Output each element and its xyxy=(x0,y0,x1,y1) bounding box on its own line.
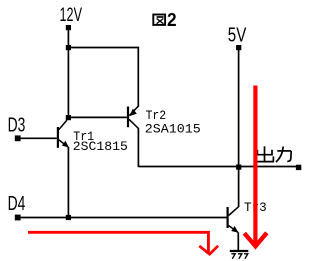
ground bar xyxy=(230,250,249,252)
transistor Q2 Tr2 base bar xyxy=(127,107,129,128)
node Tr1 collector / Tr2 base junction xyxy=(66,115,71,120)
wire Tr1 emitter down to D4 line xyxy=(67,147,69,216)
transistor Q3 Tr3 base bar xyxy=(227,207,229,228)
node D4 / Tr1 emitter junction xyxy=(66,215,71,220)
svg-text:D3: D3 xyxy=(8,114,26,136)
node 5V terminal xyxy=(236,45,241,50)
transistor Q2 Tr2 emitter arrow (PNP, points to base bar) xyxy=(129,109,137,117)
svg-text:12V: 12V xyxy=(60,5,83,26)
svg-text:2SA1015: 2SA1015 xyxy=(145,122,201,137)
transistor Q3 Tr3 emitter arrow (NPN, points outward) xyxy=(231,226,238,233)
ground hatch 7 (second) xyxy=(238,254,242,259)
label 出力 (output) xyxy=(255,146,291,162)
svg-text:5V: 5V xyxy=(228,24,247,46)
transistor Q3 Tr3 collector lead xyxy=(229,207,239,216)
wire D3 to Tr1 base xyxy=(20,137,57,139)
transistor Q1 Tr1 emitter arrow (NPN, points outward) xyxy=(62,141,69,148)
node branch to Tr2 emitter xyxy=(66,45,71,50)
node D4 terminal xyxy=(15,215,21,221)
svg-text:2: 2 xyxy=(167,10,177,30)
transistor Q2 Tr2 collector lead xyxy=(129,119,139,128)
wire Tr2 collector to output line xyxy=(137,128,139,167)
node output terminal xyxy=(296,165,301,170)
svg-text:Tr2: Tr2 xyxy=(146,108,167,123)
node output / 5V-line junction xyxy=(236,165,241,170)
wire branch to Tr2 emitter (top + right side) xyxy=(70,48,138,107)
node 12V terminal xyxy=(66,25,71,30)
ground hatch 7 (first) xyxy=(231,254,235,259)
wire Tr2 base line xyxy=(71,116,127,118)
wire D4 line to Tr3 base xyxy=(20,217,227,219)
title 図2 xyxy=(153,15,165,25)
red annotation arrow (right, from 5V area down past output) xyxy=(253,86,257,246)
ground hatch 7 (third) xyxy=(244,254,248,259)
transistor Q1 Tr1 emitter lead xyxy=(59,140,68,147)
svg-text:2SC1815: 2SC1815 xyxy=(73,139,128,154)
svg-text:D4: D4 xyxy=(8,193,26,215)
wire Tr3 emitter to ground xyxy=(237,232,239,250)
node D3 terminal xyxy=(15,135,21,141)
wire 12V vertical rail xyxy=(67,30,69,116)
wire 5V rail down to Tr3 collector xyxy=(238,50,240,207)
wire output line xyxy=(138,166,298,168)
transistor Q1 Tr1 base bar xyxy=(57,127,59,148)
transistor Q2 Tr2 emitter lead xyxy=(129,106,138,115)
transistor Q1 Tr1 collector lead xyxy=(59,120,67,130)
transistor Q3 Tr3 emitter lead xyxy=(229,226,238,233)
red annotation arrow (left, along D4 line turning down) xyxy=(28,232,208,252)
